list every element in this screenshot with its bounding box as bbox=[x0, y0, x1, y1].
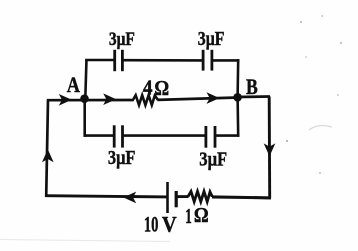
capacitor C3 3uF left plate bbox=[113, 125, 116, 147]
capacitor C4 3uF left plate bbox=[204, 126, 207, 148]
capacitor C4 3uF right plate bbox=[214, 126, 217, 148]
scan artifact: faint squiggle right side bbox=[309, 126, 332, 130]
wire: top branch down to node B bbox=[236, 59, 239, 98]
node A junction dot bbox=[80, 94, 89, 103]
resistor R2 1 ohm zigzag bbox=[188, 191, 212, 201]
scan artifact: faint rule near bottom bbox=[0, 240, 170, 242]
current arrow: right outer wire points down bbox=[264, 143, 276, 156]
resistor R1 4 ohm zigzag bbox=[130, 95, 158, 105]
wire: lower branch middle segment bbox=[123, 134, 206, 137]
node B junction dot bbox=[233, 93, 242, 102]
battery 10 V : short plate bbox=[175, 191, 178, 207]
current arrow: left outer wire points up bbox=[42, 149, 54, 162]
wire: top branch left segment bbox=[85, 59, 114, 62]
svg-text:V: V bbox=[162, 211, 177, 236]
svg-text:Ω: Ω bbox=[194, 203, 209, 227]
svg-text:1: 1 bbox=[185, 204, 192, 228]
current arrow: middle wire before node B points right bbox=[207, 92, 220, 104]
wire: right outer vertical bbox=[268, 97, 271, 198]
svg-text:B: B bbox=[246, 74, 258, 99]
svg-text:3μF: 3μF bbox=[198, 29, 225, 50]
wire: node B to right outer corner bbox=[236, 95, 270, 98]
wire: node A up to top branch bbox=[85, 59, 86, 99]
capacitor C1 3uF left plate bbox=[113, 50, 116, 71]
wire: left outer vertical bbox=[46, 100, 48, 197]
capacitor C2 3uF right plate bbox=[210, 50, 213, 71]
svg-text:3μF: 3μF bbox=[109, 29, 135, 50]
svg-text:4: 4 bbox=[143, 76, 153, 100]
svg-text:3μF: 3μF bbox=[108, 147, 136, 169]
wire: top branch middle segment bbox=[122, 59, 203, 62]
scan artifact: specks bbox=[286, 140, 288, 142]
capacitor C2 3uF left plate bbox=[202, 50, 205, 71]
wire: resistor R2 to bottom right corner bbox=[212, 197, 271, 198]
svg-text:3μF: 3μF bbox=[199, 149, 227, 171]
wire: node A down to lower capacitor branch bbox=[83, 99, 86, 137]
battery 10 V : long plate bbox=[166, 182, 169, 213]
wire: lower branch up to node B bbox=[236, 97, 239, 137]
wire: middle branch corner through A to resistor bbox=[47, 99, 131, 102]
capacitor C3 3uF right plate bbox=[121, 125, 124, 147]
svg-text:A: A bbox=[67, 72, 81, 97]
current arrow: middle wire after node A points right bbox=[103, 93, 116, 105]
current arrow: bottom wire points left bbox=[123, 192, 136, 204]
wire: middle branch resistor to node B bbox=[158, 98, 239, 100]
wire: bottom outer left part to battery bbox=[45, 196, 168, 197]
svg-text:Ω: Ω bbox=[154, 76, 169, 100]
svg-text:10: 10 bbox=[144, 211, 159, 236]
wire: battery to resistor R2 bbox=[176, 195, 188, 198]
wire: top branch right segment bbox=[212, 59, 240, 62]
wire: lower branch left segment bbox=[84, 134, 115, 137]
wire: lower branch right segment bbox=[215, 134, 240, 137]
capacitor C1 3uF right plate bbox=[121, 50, 124, 71]
current arrow: middle wire before node A points right bbox=[59, 94, 72, 106]
